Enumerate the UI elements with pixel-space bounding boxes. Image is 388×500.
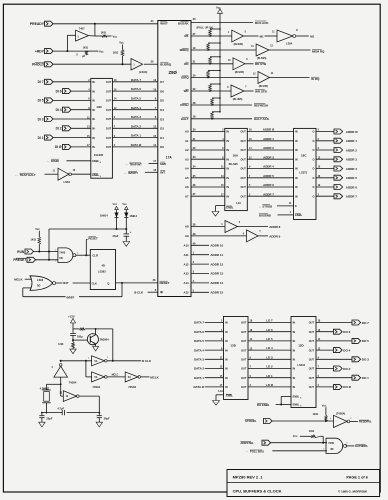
svg-text:DATA 4: DATA 4 (131, 106, 141, 110)
svg-text:OUT: OUT (241, 177, 247, 180)
note pull-up resistors (197, 25, 214, 29)
CPU data pin labels D7-D0 (160, 80, 164, 149)
svg-text:IN: IN (295, 131, 298, 134)
wire CPU RD to buffer (191, 63, 233, 65)
svg-text:D2: D2 (160, 127, 164, 131)
svg-text:IN: IN (293, 377, 296, 380)
svg-text:IN: IN (226, 168, 229, 171)
svg-text:DI 6: DI 6 (56, 89, 62, 93)
svg-text:OUT: OUT (106, 146, 112, 149)
transistor Q1 2N3904 clock driver (87, 328, 109, 346)
svg-text:74S04: 74S04 (69, 380, 77, 384)
svg-text:5A: 5A (128, 376, 131, 379)
output terminal DO 2 (316, 366, 351, 371)
svg-text:DATA 1: DATA 1 (194, 376, 204, 380)
wire buffer A8 out (238, 226, 269, 228)
svg-text:LD 4: LD 4 (266, 346, 273, 350)
svg-text:ADDR 10: ADDR 10 (210, 244, 223, 248)
signal INTRPT to CPU INT (124, 171, 158, 175)
svg-text:47µF: 47µF (112, 234, 119, 238)
svg-text:OUT: OUT (106, 100, 112, 103)
svg-text:DI 2: DI 2 (56, 127, 62, 131)
svg-text:←: ← (125, 162, 128, 166)
diode 1N914 no.2 (124, 212, 137, 230)
svg-text:Vcc: Vcc (119, 41, 124, 45)
net stub ADDR 12 (191, 262, 224, 266)
label 8LS95 IORQ buffer (259, 84, 268, 88)
label LS04 under TRAP HALT inverter (64, 180, 71, 184)
svg-text:IN: IN (226, 186, 229, 189)
ground arrow 16A enable (212, 212, 219, 217)
output terminal DO 7 (316, 320, 369, 325)
svg-text:1KΩ: 1KΩ (101, 31, 106, 35)
resistor 1K pull-up on +RDY (83, 46, 99, 55)
net stub ADDR 10 (191, 244, 224, 248)
svg-text:LD 3: LD 3 (266, 355, 273, 359)
svg-text:←: ← (246, 450, 249, 454)
svg-text:ADDR 6: ADDR 6 (346, 185, 357, 189)
label RESDRVL (359, 420, 372, 424)
inverter 74S04 crystal (59, 391, 79, 402)
wire buffer to MEM RQ (269, 49, 311, 51)
svg-text:(8LV95): (8LV95) (259, 84, 268, 88)
svg-text:ENBL: ENBL (293, 396, 300, 399)
svg-text:5A: 5A (94, 360, 97, 363)
svg-text:IN: IN (226, 149, 229, 152)
buffer 74S04 PHI CLK driver (88, 356, 109, 366)
svg-text:+12V: +12V (68, 315, 75, 319)
svg-text:A11: A11 (184, 253, 189, 257)
svg-text:Q: Q (107, 282, 109, 286)
svg-text:81LS95: 81LS95 (94, 153, 104, 157)
wire crystal bottom rail (41, 412, 100, 414)
svg-text:HALT: HALT (181, 117, 189, 121)
net label PHI REF (66, 294, 79, 299)
svg-text:ADDR 5: ADDR 5 (346, 176, 357, 180)
Vcc pull-up RUN (30, 227, 40, 252)
svg-text:16A: 16A (233, 154, 239, 158)
svg-text:ADDR 1: ADDR 1 (263, 137, 274, 141)
wire PHI CLK out (107, 360, 141, 362)
wire diode rail (49, 228, 127, 230)
svg-text:Vcc: Vcc (322, 404, 327, 408)
buffer 8LS95 WR (227, 85, 247, 97)
svg-text:O: O (312, 158, 314, 161)
svg-text:ADDR 6: ADDR 6 (263, 183, 274, 187)
svg-text:+RDY: +RDY (35, 49, 45, 53)
svg-text:DO 3: DO 3 (362, 358, 369, 362)
wire base (73, 339, 87, 341)
svg-text:ADDR 3: ADDR 3 (263, 155, 274, 159)
PRESET input terminal (13, 257, 35, 262)
svg-text:ADDR 8: ADDR 8 (269, 225, 280, 229)
wire PHOLD buffer to CPU BUSRQ pin 25 (144, 63, 158, 65)
svg-text:RESET: RESET (160, 281, 170, 285)
svg-text:ADDR 2: ADDR 2 (346, 148, 357, 152)
MCLK net label (14, 276, 32, 281)
svg-text:NMI: NMI (160, 162, 166, 166)
svg-text:7400: 7400 (59, 251, 65, 255)
svg-text:MPZ80 REV 2 .1: MPZ80 REV 2 .1 (233, 474, 264, 479)
title CPU BUFFERS CLOCK (233, 489, 282, 494)
title MPZ80 REV (233, 474, 264, 479)
crystal 4.0MHZ (40, 384, 51, 412)
wire buffer to RD STB (245, 63, 254, 65)
svg-text:A5: A5 (185, 176, 189, 180)
buffer A9 (243, 230, 262, 242)
label 8LS95 RD buffer (235, 70, 244, 74)
+12V supply (68, 315, 76, 329)
svg-text:LD 2: LD 2 (266, 365, 273, 369)
svg-text:←: ← (47, 159, 50, 163)
svg-text:IN: IN (92, 100, 95, 103)
svg-text:OUT: OUT (241, 168, 247, 171)
output terminal ADDR 1 (316, 138, 357, 143)
inverter LS04 M1 (272, 30, 298, 42)
svg-text:PHOLD: PHOLD (32, 63, 44, 67)
CPU control pin labels (180, 34, 190, 121)
reset flip-flop U14D LS393 (90, 250, 115, 290)
svg-text:DO 5: DO 5 (362, 339, 369, 343)
svg-text:IN: IN (293, 368, 296, 371)
svg-text:ADDR Ø: ADDR Ø (346, 130, 358, 134)
svg-text:DATA 7: DATA 7 (131, 78, 141, 82)
net label M1 (260, 34, 264, 38)
title block frame (227, 470, 380, 497)
net stub PHI CLK to CPU pin 6 (134, 291, 158, 295)
label MEM RQ (312, 49, 325, 53)
svg-text:RFSH: RFSH (180, 103, 188, 107)
PREADY input terminal (30, 21, 53, 26)
svg-text:IN: IN (225, 340, 228, 343)
svg-text:WR STB: WR STB (255, 89, 268, 93)
buffer 8LS95 M1 (228, 30, 247, 42)
PHOLD input terminal (32, 62, 53, 67)
svg-text:IN: IN (225, 322, 228, 325)
svg-text:IN: IN (295, 158, 298, 161)
svg-text:20pF: 20pF (104, 416, 110, 420)
net label MCLK (150, 375, 159, 379)
18C latch enable STROB (259, 203, 294, 208)
signal FOLL BUS (246, 449, 327, 454)
svg-text:(8LV95): (8LV95) (235, 70, 244, 74)
wire buffer output up to PREADY line (94, 24, 96, 36)
svg-text:MCLK: MCLK (14, 277, 23, 281)
svg-text:D7: D7 (160, 80, 164, 84)
svg-text:17A: 17A (166, 156, 173, 160)
svg-text:DI 3: DI 3 (38, 117, 44, 121)
signal DO ENBL to 12D (257, 397, 291, 408)
net stub ADDR 15 (191, 291, 224, 295)
svg-text:IN: IN (225, 359, 228, 362)
NAND gate 5D RUN/PRESET (55, 248, 76, 263)
svg-text:ADDR 1: ADDR 1 (346, 139, 357, 143)
svg-text:REFRESH: REFRESH (254, 103, 268, 107)
net label ADDR 8 (269, 225, 280, 229)
wire CPU M1 to buffer (191, 35, 232, 37)
wire CPU HALT out (191, 118, 252, 120)
wire PREADY to CPU WAIT pin 24 (53, 23, 158, 25)
ground right cap (96, 422, 102, 427)
capacitor 4.7pF series (57, 407, 64, 416)
svg-text:E: E (295, 204, 297, 208)
svg-text:IO RQ: IO RQ (311, 77, 320, 81)
capacitor 47uF (112, 229, 131, 242)
svg-text:IN: IN (226, 158, 229, 161)
label 74S04 second (128, 385, 136, 389)
svg-text:ADDR 5: ADDR 5 (263, 174, 274, 178)
wire inverter to RESDRVL (350, 418, 358, 421)
svg-text:1N914: 1N914 (100, 214, 108, 218)
label REFRESH (254, 103, 268, 107)
label 8LS95 WR buffer (233, 97, 243, 101)
svg-text:OUT: OUT (309, 322, 315, 325)
wire buffer output to pull-up (89, 35, 103, 37)
svg-text:ADDR Ø: ADDR Ø (263, 128, 275, 132)
net label PHI-4T (63, 280, 73, 285)
wire STROBL to inverter (272, 420, 333, 422)
wire 16A enable to ground arrow (216, 206, 225, 212)
output label M1 (310, 34, 314, 38)
svg-text:O: O (312, 168, 314, 171)
junction node PREADY/buffer (94, 23, 96, 25)
svg-text:DI 4: DI 4 (56, 108, 62, 112)
inverter U-LS04 TRAP HALT (53, 168, 76, 180)
signal ADRSTBL terminal (240, 440, 270, 445)
svg-text:IN: IN (226, 140, 229, 143)
svg-text:O: O (312, 140, 314, 143)
svg-text:IN: IN (92, 118, 95, 121)
svg-text:ADDR 7: ADDR 7 (263, 192, 274, 196)
svg-text:LD 5: LD 5 (266, 337, 273, 341)
label WR STB (255, 89, 268, 93)
svg-text:1,19: 1,19 (236, 202, 241, 205)
svg-text:DO 6: DO 6 (343, 330, 350, 334)
label LS04 under PHOLD buffer (139, 70, 147, 74)
wires ADDR 0-7 from 16A to latch 18C (247, 128, 293, 197)
svg-text:MCLC: MCLC (112, 374, 119, 376)
svg-text:ADDR 15: ADDR 15 (210, 291, 223, 295)
svg-text:OUT: OUT (241, 331, 247, 334)
data out buffer U12D LS244 (291, 317, 316, 408)
svg-text:A4: A4 (185, 167, 189, 171)
svg-text:Vcc: Vcc (113, 203, 118, 206)
svg-text:4D: 4D (102, 264, 105, 268)
svg-text:DATA 2: DATA 2 (131, 124, 141, 128)
svg-text:ADDR 7: ADDR 7 (346, 195, 357, 199)
wire TRAP HALT to inverter (45, 173, 59, 175)
svg-text:(8LS95): (8LS95) (257, 56, 267, 60)
svg-text:MREQ: MREQ (180, 48, 190, 52)
svg-text:2N3904: 2N3904 (100, 338, 110, 342)
buffer A8 (221, 221, 241, 233)
svg-text:DI 5: DI 5 (38, 99, 44, 103)
svg-text:LS04: LS04 (286, 41, 293, 45)
svg-text:14D: 14D (96, 105, 102, 109)
svg-text:OUT: OUT (241, 340, 247, 343)
buffer U-LS04 PHOLD (131, 59, 143, 71)
svg-text:IN: IN (225, 349, 228, 352)
wire CPU MREQ to buffer (191, 49, 256, 51)
ground transistor emitter (93, 346, 99, 351)
svg-text:Φ: Φ (160, 291, 163, 295)
svg-text:IN: IN (295, 149, 298, 152)
svg-text:OUT: OUT (309, 349, 315, 352)
net label PHI CLK (142, 359, 152, 363)
svg-text:CLK: CLK (92, 282, 97, 286)
label RD STB (255, 62, 267, 66)
CPU right pin numbers (193, 17, 196, 293)
svg-text:M1: M1 (184, 34, 188, 38)
svg-text:(LS04): (LS04) (139, 70, 147, 74)
output terminal DO 6 (316, 329, 351, 334)
svg-text:µF: µF (82, 54, 85, 58)
wire CPU WR to buffer (191, 90, 231, 92)
buffer U-7407 PREADY driver (76, 27, 89, 41)
svg-text:A10: A10 (183, 244, 189, 248)
svg-text:Φ CLK: Φ CLK (134, 291, 144, 295)
resistor 3.3K to ground (58, 340, 74, 349)
svg-text:OUT: OUT (309, 377, 315, 380)
svg-text:A1: A1 (185, 139, 189, 143)
svg-text:LS393: LS393 (98, 270, 106, 274)
svg-text:MEM RQ: MEM RQ (312, 49, 325, 53)
buffer 8LS95 IORQ (253, 72, 274, 84)
svg-text:ΦREF: ΦREF (66, 295, 74, 299)
svg-text:A0: A0 (185, 130, 189, 134)
svg-text:IN: IN (92, 109, 95, 112)
svg-text:D5: D5 (160, 99, 164, 103)
net stub ADDR 13 (191, 272, 224, 276)
RUN input terminal (17, 249, 33, 254)
svg-text:IN: IN (226, 177, 229, 180)
svg-text:A6: A6 (185, 185, 189, 189)
svg-text:IN: IN (293, 331, 296, 334)
svg-text:OUT: OUT (241, 140, 247, 143)
svg-text:DATA 3: DATA 3 (131, 115, 141, 119)
svg-text:IN: IN (92, 146, 95, 149)
svg-text:A12: A12 (183, 262, 189, 266)
wire inverter to M1 output (296, 35, 309, 37)
svg-text:OUT: OUT (309, 359, 315, 362)
svg-text:5A: 5A (94, 376, 97, 379)
svg-text:WAIT: WAIT (160, 22, 168, 26)
input terminal DI 3 (38, 117, 91, 122)
svg-text:Vcc: Vcc (293, 434, 298, 438)
svg-text:IN: IN (293, 386, 296, 389)
title copyright (338, 490, 367, 494)
svg-text:INT: INT (160, 170, 165, 174)
svg-text:DATA 1: DATA 1 (131, 134, 141, 138)
wire 13D enable to ground arrow (216, 395, 224, 401)
svg-text:DATA 2: DATA 2 (194, 367, 204, 371)
svg-text:OUT: OUT (309, 331, 315, 334)
svg-text:22pF: 22pF (46, 416, 52, 420)
capacitor 22pF left (39, 413, 53, 423)
svg-text:OUT: OUT (309, 386, 315, 389)
svg-text:7407: 7407 (79, 27, 85, 31)
net label ADDR 9 (269, 234, 280, 238)
svg-text:3.3K: 3.3K (58, 342, 64, 346)
svg-text:5D: 5D (59, 256, 62, 260)
signal DISIN to ENBL A (47, 159, 91, 163)
svg-text:1N914: 1N914 (129, 214, 137, 218)
svg-text:OUT: OUT (241, 186, 247, 189)
CPU Z80 U17A (158, 21, 191, 297)
svg-text:DO 4: DO 4 (343, 348, 350, 352)
svg-text:TRAP HALT: TRAP HALT (20, 173, 36, 177)
svg-text:74S04: 74S04 (128, 385, 136, 389)
pull-up resistor HALT (211, 111, 221, 120)
svg-text:ENBL: ENBL (293, 404, 300, 407)
svg-text:O: O (312, 177, 314, 180)
wire osc input loop (47, 377, 64, 396)
Vcc rail symbol (216, 6, 223, 14)
wire buffer to WR STB (244, 90, 254, 92)
svg-text:(8LU95): (8LU95) (233, 97, 243, 101)
svg-text:←: ← (259, 204, 262, 208)
feedback wire PHI REF (23, 283, 122, 297)
svg-text:DATA 6: DATA 6 (194, 330, 204, 334)
svg-text:ADDR 12: ADDR 12 (210, 262, 223, 266)
label 8LS95 MREQ buffer (257, 56, 267, 60)
Vcc diode 2 (122, 203, 128, 211)
svg-text:IORQ: IORQ (181, 76, 189, 80)
svg-text:RD STB: RD STB (255, 62, 267, 66)
svg-text:(74S04): (74S04) (336, 412, 345, 416)
svg-text:ADDR 13: ADDR 13 (210, 272, 223, 276)
output terminal ADDR 6 (316, 185, 357, 190)
svg-text:O: O (312, 149, 314, 152)
svg-text:OUT: OUT (106, 109, 112, 112)
wire NAND to EXTNDRL (346, 443, 355, 446)
CPU address pin labels A0-A15 (183, 130, 189, 295)
svg-text:A9: A9 (185, 234, 189, 238)
wires CPU A0-A7 to buffer 16A (191, 130, 225, 197)
svg-text:A8: A8 (185, 225, 189, 229)
input terminal DI 4 (56, 107, 91, 112)
svg-text:D4: D4 (160, 108, 164, 112)
svg-text:Vcc: Vcc (99, 49, 104, 53)
svg-text:MCLK: MCLK (150, 375, 159, 379)
svg-text:IN: IN (295, 195, 298, 198)
svg-text:Vcc: Vcc (216, 6, 221, 10)
inverter 74S04 osc feedback up (51, 364, 67, 378)
svg-text:IN: IN (226, 195, 229, 198)
svg-text:D6: D6 (160, 89, 164, 93)
svg-text:DATA 6: DATA 6 (131, 87, 141, 91)
svg-text:1KΩ: 1KΩ (30, 238, 35, 242)
wire power-on-reset node down (48, 229, 50, 260)
svg-text:OUT: OUT (309, 340, 315, 343)
svg-text:Φ CLK: Φ CLK (142, 359, 152, 363)
svg-text:PRESET: PRESET (13, 258, 26, 262)
svg-text:3D: 3D (330, 447, 333, 451)
svg-text:A15: A15 (183, 291, 189, 295)
wire inverter to ENBL B (71, 173, 90, 175)
svg-text:IN: IN (225, 386, 228, 389)
svg-text:OUT: OUT (241, 386, 247, 389)
18C enable BUSENB (259, 212, 294, 217)
svg-text:M1: M1 (260, 34, 264, 38)
svg-text:OUT: OUT (241, 131, 247, 134)
svg-text:Vcc: Vcc (35, 227, 40, 231)
wire NAND out to 14D CLR (76, 252, 90, 256)
buffer 74S04 MCLK second (125, 372, 140, 382)
resistor 1K pull-up on PREADY buffer (101, 31, 112, 38)
svg-text:LD 6: LD 6 (266, 328, 273, 332)
svg-text:OUT: OUT (106, 128, 112, 131)
